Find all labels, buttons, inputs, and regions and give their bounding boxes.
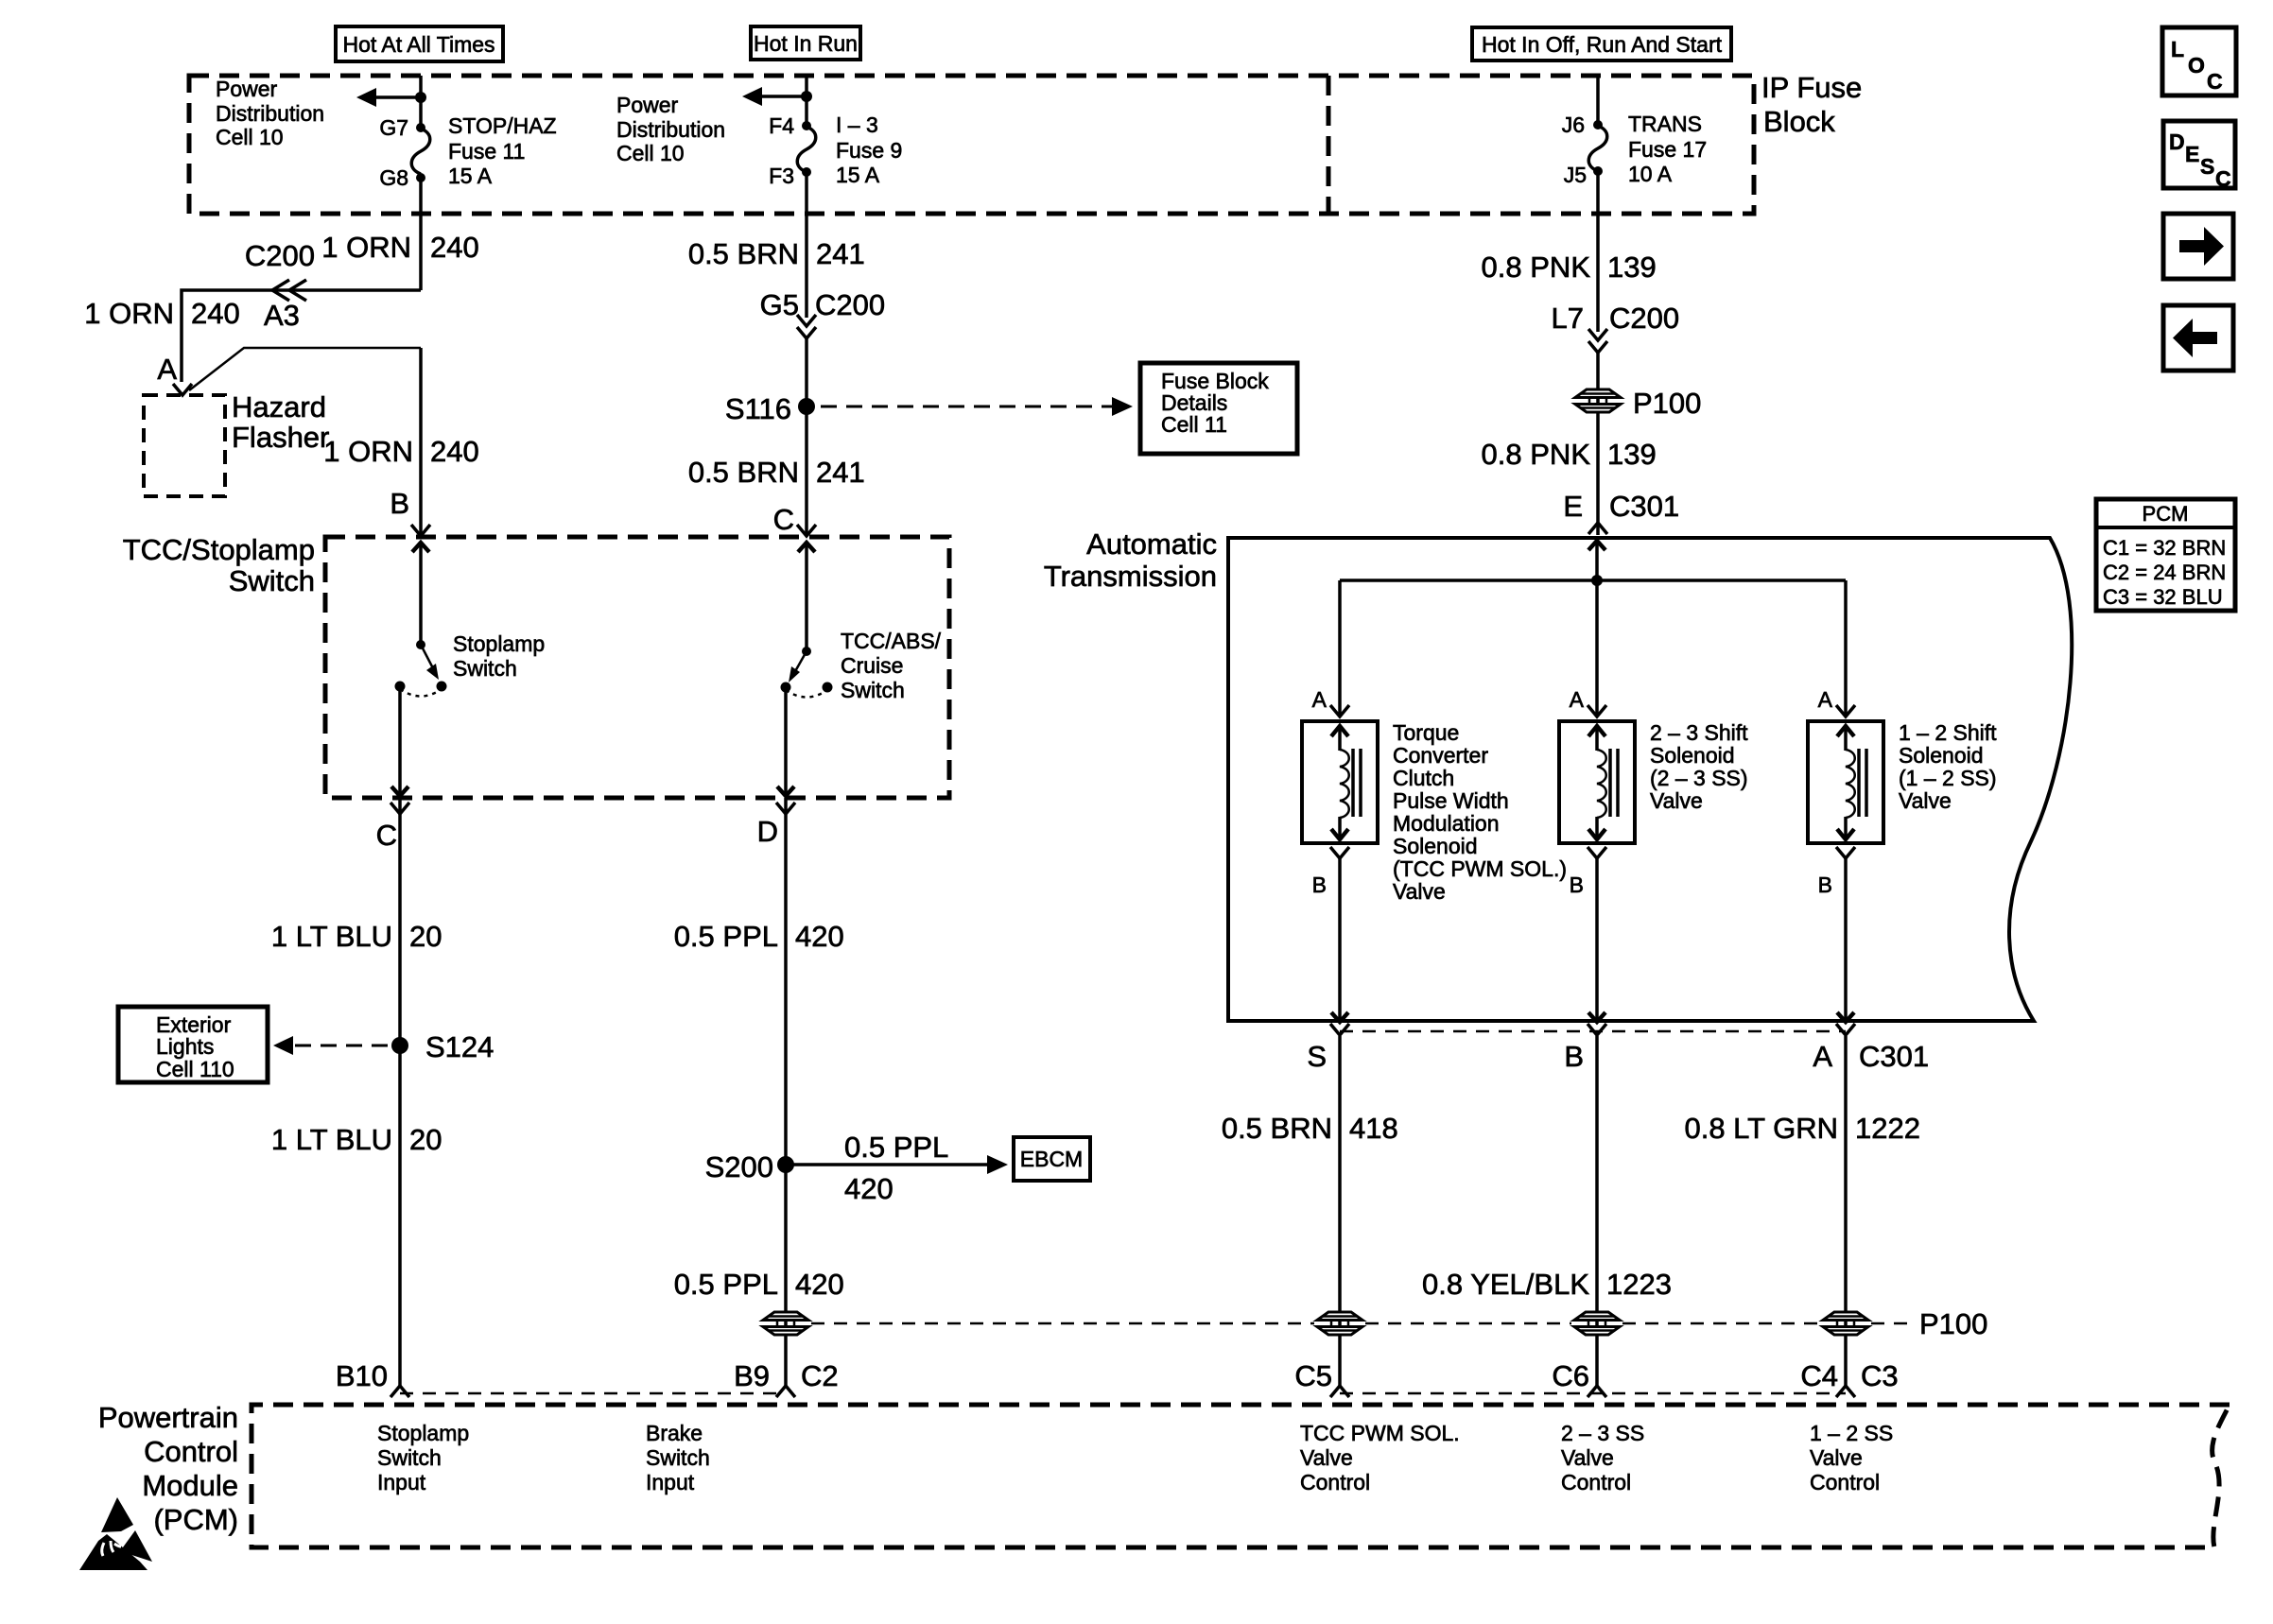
svg-text:Distribution: Distribution bbox=[216, 101, 324, 126]
wire: drop to 2-3 shift solenoid bbox=[1595, 580, 1599, 717]
label: I-3 Fuse 9 15 A bbox=[836, 112, 902, 187]
svg-text:STOP/HAZ: STOP/HAZ bbox=[448, 113, 557, 138]
svg-text:2 – 3 Shift: 2 – 3 Shift bbox=[1650, 720, 1748, 745]
svg-text:Control: Control bbox=[144, 1435, 238, 1468]
svg-text:420: 420 bbox=[844, 1172, 894, 1205]
svg-text:C301: C301 bbox=[1859, 1040, 1929, 1073]
pin F4 bbox=[769, 113, 811, 138]
terminal A of hazard flasher bbox=[157, 353, 192, 395]
svg-text:Valve: Valve bbox=[1899, 788, 1952, 813]
label: TCC/ABS/ Cruise Switch bbox=[841, 629, 942, 702]
svg-text:Stoplamp: Stoplamp bbox=[377, 1421, 469, 1445]
wire: stoplamp output arrow bbox=[391, 686, 408, 796]
svg-text:L: L bbox=[2171, 37, 2184, 61]
svg-text:TCC PWM SOL.: TCC PWM SOL. bbox=[1300, 1421, 1460, 1445]
svg-text:Switch: Switch bbox=[841, 678, 905, 702]
connector P100 pass-through col4 bbox=[1574, 1312, 1620, 1335]
svg-text:Solenoid: Solenoid bbox=[1393, 834, 1478, 858]
svg-text:Valve: Valve bbox=[1300, 1445, 1353, 1470]
fuse F9 bbox=[797, 127, 816, 172]
wire: fuse 17 output bbox=[1596, 171, 1600, 332]
wire: B to PCM C6 bbox=[1595, 1036, 1599, 1386]
svg-text:IP Fuse: IP Fuse bbox=[1761, 71, 1862, 104]
svg-text:Solenoid: Solenoid bbox=[1899, 743, 1984, 768]
arrow S200 to EBCM bbox=[786, 1131, 1008, 1205]
wire: drop to TCC PWM solenoid bbox=[1338, 580, 1342, 717]
svg-text:0.5 PPL: 0.5 PPL bbox=[844, 1131, 948, 1164]
label: 1 ORN 240 (left) bbox=[84, 297, 239, 330]
svg-text:P100: P100 bbox=[1919, 1307, 1987, 1340]
terminal S C301 bbox=[1307, 1024, 1349, 1073]
svg-text:0.5 PPL: 0.5 PPL bbox=[674, 1268, 778, 1301]
svg-text:1 ORN: 1 ORN bbox=[323, 435, 413, 468]
svg-text:B: B bbox=[1312, 872, 1327, 897]
svg-text:2 – 3 SS: 2 – 3 SS bbox=[1561, 1421, 1644, 1445]
label: Power Distribution Cell 10 (mid) bbox=[616, 93, 725, 165]
terminal C of TCC/Stoplamp switch bbox=[773, 503, 816, 536]
terminal C6 bbox=[1552, 1359, 1606, 1397]
svg-text:F3: F3 bbox=[769, 164, 794, 188]
connector tie line B10-B9 bbox=[400, 1392, 786, 1395]
wire: solenoid feed branch bbox=[1340, 579, 1846, 582]
wire: arrow to Power Distribution col2 bbox=[742, 87, 807, 106]
solenoid U3 1-2 shift box bbox=[1808, 721, 1883, 843]
label: STOP/HAZ Fuse 11 15 A bbox=[448, 113, 557, 188]
label: 1 LT BLU 20 (lower) bbox=[271, 1123, 442, 1156]
wire: col2 to PCM B9 bbox=[784, 798, 788, 1386]
svg-text:D: D bbox=[2169, 130, 2185, 154]
svg-text:E: E bbox=[1563, 490, 1583, 523]
label: Stoplamp Switch Input bbox=[377, 1421, 469, 1494]
node: junction col2 bbox=[801, 91, 812, 102]
svg-text:Flasher: Flasher bbox=[232, 421, 329, 454]
svg-text:10 A: 10 A bbox=[1628, 162, 1673, 186]
pin F3 bbox=[769, 164, 811, 188]
svg-text:S200: S200 bbox=[705, 1150, 773, 1183]
svg-text:P100: P100 bbox=[1633, 387, 1701, 420]
terminal B 2-3 solenoid bbox=[1570, 847, 1606, 897]
wire: fuse 11 output bbox=[419, 178, 423, 290]
svg-text:1222: 1222 bbox=[1855, 1112, 1920, 1145]
wire: fuse 9 output bbox=[805, 172, 808, 318]
pin J6 bbox=[1562, 112, 1603, 137]
svg-text:Fuse 17: Fuse 17 bbox=[1628, 137, 1707, 162]
svg-text:A: A bbox=[1570, 687, 1585, 712]
svg-text:C301: C301 bbox=[1609, 490, 1679, 523]
PCM connector legend table bbox=[2096, 499, 2235, 611]
solenoid U2 2-3 shift box bbox=[1559, 721, 1635, 843]
svg-text:PCM: PCM bbox=[2143, 502, 2189, 526]
svg-text:S116: S116 bbox=[725, 392, 791, 425]
label: 1 LT BLU 20 (upper) bbox=[271, 920, 442, 953]
svg-text:L7: L7 bbox=[1552, 302, 1584, 335]
svg-text:Lights: Lights bbox=[156, 1034, 214, 1059]
label: 0.8 YEL/BLK 1223 bbox=[1422, 1268, 1672, 1301]
svg-text:TRANS: TRANS bbox=[1628, 112, 1702, 136]
label: TCC/Stoplamp Switch bbox=[123, 533, 315, 597]
solenoid U3 coil bbox=[1837, 726, 1866, 839]
label: 2-3 SS Valve Control bbox=[1561, 1421, 1644, 1494]
svg-text:Switch: Switch bbox=[646, 1445, 710, 1470]
svg-text:1223: 1223 bbox=[1606, 1268, 1672, 1301]
icon LOC bbox=[2162, 27, 2236, 95]
svg-text:1 LT BLU: 1 LT BLU bbox=[271, 1123, 392, 1156]
wire: E feed arrow inside transmission bbox=[1588, 541, 1605, 580]
stoplamp switch bbox=[395, 640, 447, 697]
svg-text:Block: Block bbox=[1763, 105, 1835, 138]
wire: arrow to Power Distribution col1 bbox=[356, 88, 421, 107]
svg-text:Cell 10: Cell 10 bbox=[616, 141, 685, 165]
svg-text:1 ORN: 1 ORN bbox=[321, 231, 411, 264]
terminal A 2-3 solenoid bbox=[1570, 687, 1606, 717]
svg-text:Stoplamp: Stoplamp bbox=[453, 631, 545, 656]
connector G5 C200 bbox=[760, 288, 885, 338]
svg-text:Hot In Off, Run And Start: Hot In Off, Run And Start bbox=[1482, 32, 1723, 57]
svg-text:Fuse 9: Fuse 9 bbox=[836, 138, 902, 163]
svg-text:Power: Power bbox=[616, 93, 679, 117]
svg-text:F4: F4 bbox=[769, 113, 794, 138]
svg-text:TCC/Stoplamp: TCC/Stoplamp bbox=[123, 533, 315, 566]
icon DESC bbox=[2163, 121, 2235, 191]
svg-text:C: C bbox=[2215, 166, 2231, 191]
wire: TCC/ABS input arrow bbox=[798, 543, 815, 651]
svg-text:B: B bbox=[1818, 872, 1832, 897]
svg-text:0.5 PPL: 0.5 PPL bbox=[674, 920, 778, 953]
svg-text:D: D bbox=[757, 815, 778, 848]
wire: 1-2 solenoid return arrow bbox=[1837, 858, 1854, 1022]
svg-text:C6: C6 bbox=[1552, 1359, 1589, 1392]
connector P100 pass-through col2 bbox=[763, 1312, 808, 1335]
splice S116 bbox=[725, 392, 815, 425]
label: Brake Switch Input bbox=[646, 1421, 710, 1494]
TCC/ABS/Cruise switch bbox=[781, 647, 833, 698]
svg-text:1 – 2 Shift: 1 – 2 Shift bbox=[1899, 720, 1997, 745]
label: 0.5 PPL 420 (lower) bbox=[674, 1268, 844, 1301]
svg-text:Solenoid: Solenoid bbox=[1650, 743, 1735, 768]
svg-text:0.5 BRN: 0.5 BRN bbox=[688, 237, 799, 270]
svg-text:C3 = 32 BLU: C3 = 32 BLU bbox=[2103, 585, 2223, 609]
svg-text:240: 240 bbox=[430, 231, 479, 264]
svg-text:E: E bbox=[2185, 142, 2199, 166]
callout box Fuse Block Details Cell 11 bbox=[1140, 363, 1297, 454]
svg-text:A: A bbox=[1818, 687, 1833, 712]
splice S200 bbox=[705, 1150, 794, 1183]
svg-text:C2 = 24 BRN: C2 = 24 BRN bbox=[2103, 561, 2226, 584]
svg-text:0.8 YEL/BLK: 0.8 YEL/BLK bbox=[1422, 1268, 1589, 1301]
connector C200 marks col1 bbox=[272, 280, 306, 301]
svg-text:15 A: 15 A bbox=[448, 164, 493, 188]
svg-text:420: 420 bbox=[795, 920, 844, 953]
svg-text:C200: C200 bbox=[245, 239, 315, 272]
svg-text:C1 = 32 BRN: C1 = 32 BRN bbox=[2103, 536, 2226, 560]
label: Power Distribution Cell 10 (left) bbox=[216, 77, 324, 149]
svg-text:Control: Control bbox=[1300, 1470, 1370, 1494]
fuse F11 STOP/HAZ bbox=[411, 129, 430, 174]
svg-text:Valve: Valve bbox=[1561, 1445, 1614, 1470]
svg-text:G5: G5 bbox=[760, 288, 799, 321]
svg-text:B: B bbox=[1564, 1040, 1584, 1073]
pin G8 bbox=[379, 165, 425, 190]
svg-text:420: 420 bbox=[795, 1268, 844, 1301]
svg-text:Clutch: Clutch bbox=[1393, 766, 1454, 790]
svg-text:A: A bbox=[1312, 687, 1327, 712]
label: Powertrain Control Module (PCM) bbox=[98, 1401, 238, 1536]
svg-text:Brake: Brake bbox=[646, 1421, 703, 1445]
wire: drop to 1-2 shift solenoid bbox=[1844, 580, 1848, 717]
wire: branch down to stoplamp switch bbox=[419, 348, 423, 535]
solenoid U1 coil bbox=[1331, 726, 1361, 839]
svg-text:Torque: Torque bbox=[1393, 720, 1459, 745]
terminal B10 bbox=[336, 1359, 409, 1397]
svg-text:C: C bbox=[376, 819, 397, 852]
terminal C4 C3 bbox=[1800, 1359, 1898, 1397]
svg-text:Modulation: Modulation bbox=[1393, 811, 1500, 836]
svg-text:A: A bbox=[1813, 1040, 1832, 1073]
svg-text:I – 3: I – 3 bbox=[836, 112, 878, 137]
hazard flasher dashed box bbox=[144, 395, 225, 496]
label box "Hot At All Times" bbox=[336, 26, 503, 61]
svg-text:B10: B10 bbox=[336, 1359, 388, 1392]
terminal A 1-2 solenoid bbox=[1818, 687, 1855, 717]
svg-text:Hot In Run: Hot In Run bbox=[754, 31, 858, 56]
wire: TCC PWM solenoid return arrow bbox=[1331, 858, 1348, 1022]
svg-text:1 ORN: 1 ORN bbox=[84, 297, 174, 330]
connector tie line C301 bbox=[1340, 1030, 1846, 1033]
solenoid U2 coil bbox=[1588, 726, 1618, 839]
svg-text:Switch: Switch bbox=[453, 656, 517, 681]
svg-text:EBCM: EBCM bbox=[1020, 1147, 1083, 1171]
svg-text:Converter: Converter bbox=[1393, 743, 1488, 768]
svg-text:139: 139 bbox=[1607, 251, 1657, 284]
svg-text:(2 – 3 SS): (2 – 3 SS) bbox=[1650, 766, 1748, 790]
terminal B9 C2 bbox=[734, 1359, 839, 1397]
wire: A to PCM C4 bbox=[1844, 1036, 1848, 1386]
label: TCC PWM SOL. Valve Control bbox=[1300, 1421, 1460, 1494]
svg-text:Automatic: Automatic bbox=[1086, 527, 1217, 561]
label: 1-2 Shift Solenoid bbox=[1899, 720, 1997, 813]
wire: col1 to PCM B10 bbox=[398, 798, 402, 1386]
splice S124 bbox=[391, 1030, 494, 1063]
svg-text:Valve: Valve bbox=[1393, 879, 1446, 904]
Automatic Transmission box bbox=[1228, 538, 2072, 1021]
svg-text:Valve: Valve bbox=[1650, 788, 1703, 813]
svg-text:(1 – 2 SS): (1 – 2 SS) bbox=[1899, 766, 1997, 790]
wire: TCC/ABS output arrow bbox=[777, 687, 794, 796]
solenoid U1 TCC PWM box bbox=[1302, 721, 1378, 843]
dashed harness line P100 bbox=[811, 1322, 1914, 1325]
svg-text:G8: G8 bbox=[379, 165, 408, 190]
svg-text:Powertrain: Powertrain bbox=[98, 1401, 238, 1434]
connector P100 pass-through top bbox=[1575, 387, 1701, 420]
terminal E C301 bbox=[1563, 490, 1679, 534]
svg-text:C3: C3 bbox=[1861, 1359, 1899, 1392]
wire: S to PCM C5 bbox=[1338, 1036, 1342, 1386]
dashed arrow S116 to fuse block details bbox=[821, 397, 1133, 416]
label: 0.8 PNK 139 (upper) bbox=[1482, 251, 1657, 284]
pin J5 bbox=[1564, 163, 1603, 187]
svg-text:C: C bbox=[2207, 69, 2223, 94]
wire: 2-3 solenoid return arrow bbox=[1588, 858, 1605, 1022]
svg-text:20: 20 bbox=[409, 920, 442, 953]
svg-text:Fuse 11: Fuse 11 bbox=[448, 139, 525, 164]
svg-text:C: C bbox=[773, 503, 794, 536]
svg-text:B: B bbox=[390, 487, 409, 520]
svg-text:Valve: Valve bbox=[1810, 1445, 1863, 1470]
svg-text:240: 240 bbox=[430, 435, 479, 468]
label: 0.5 PPL 420 (upper) bbox=[674, 920, 844, 953]
connector P100 pass-through col5 bbox=[1823, 1307, 1987, 1340]
fuse F17 TRANS bbox=[1588, 126, 1607, 171]
svg-text:0.8 PNK: 0.8 PNK bbox=[1482, 438, 1591, 471]
svg-text:C5: C5 bbox=[1294, 1359, 1332, 1392]
node: junction col1 bbox=[415, 92, 426, 103]
ESD warning symbol bbox=[79, 1497, 152, 1570]
svg-text:Transmission: Transmission bbox=[1044, 560, 1217, 593]
label: 1 ORN 240 (branch) bbox=[323, 435, 478, 468]
svg-text:Control: Control bbox=[1810, 1470, 1880, 1494]
svg-text:B: B bbox=[1570, 872, 1584, 897]
wire: hazard branch diagonal bbox=[189, 348, 421, 390]
terminal D (bottom col2) bbox=[757, 803, 795, 848]
svg-text:A3: A3 bbox=[264, 299, 300, 332]
wire: fuse 17 feed bbox=[1596, 76, 1600, 125]
IP Fuse Block dashed box bbox=[189, 76, 1754, 214]
icon arrow next bbox=[2163, 214, 2233, 279]
svg-text:J6: J6 bbox=[1562, 112, 1585, 137]
svg-text:G7: G7 bbox=[379, 115, 408, 140]
svg-text:C200: C200 bbox=[815, 288, 885, 321]
svg-text:Distribution: Distribution bbox=[616, 117, 725, 142]
label: Automatic Transmission bbox=[1044, 527, 1217, 593]
svg-text:241: 241 bbox=[816, 237, 865, 270]
label: 0.8 PNK 139 (lower) bbox=[1482, 438, 1657, 471]
svg-text:Hot At All Times: Hot At All Times bbox=[342, 32, 495, 57]
IP Fuse Block label bbox=[1761, 71, 1862, 138]
svg-text:1 LT BLU: 1 LT BLU bbox=[271, 920, 392, 953]
svg-text:Cell 110: Cell 110 bbox=[156, 1057, 234, 1081]
IP Fuse Block internal separator bbox=[1327, 76, 1331, 214]
svg-text:(TCC PWM SOL.): (TCC PWM SOL.) bbox=[1393, 856, 1567, 881]
svg-text:Cell 11: Cell 11 bbox=[1161, 412, 1227, 437]
icon arrow prev bbox=[2163, 305, 2233, 371]
wire: fuse 11 feed bbox=[419, 76, 423, 128]
svg-text:Hazard: Hazard bbox=[232, 390, 326, 423]
wire: stoplamp input arrow bbox=[412, 543, 429, 645]
label: 0.5 BRN 418 bbox=[1222, 1112, 1398, 1145]
terminal A TCC PWM solenoid bbox=[1312, 687, 1349, 717]
svg-text:TCC/ABS/: TCC/ABS/ bbox=[841, 629, 942, 653]
svg-text:Module: Module bbox=[142, 1469, 238, 1502]
terminal C5 bbox=[1294, 1359, 1349, 1397]
pin G7 bbox=[379, 115, 425, 140]
svg-text:C4: C4 bbox=[1800, 1359, 1838, 1392]
svg-text:J5: J5 bbox=[1564, 163, 1587, 187]
svg-text:C2: C2 bbox=[801, 1359, 839, 1392]
terminal B 1-2 solenoid bbox=[1818, 847, 1855, 897]
wire: pnk to P100 bbox=[1596, 353, 1600, 535]
svg-text:0.8 PNK: 0.8 PNK bbox=[1482, 251, 1591, 284]
svg-text:0.5 BRN: 0.5 BRN bbox=[688, 456, 799, 489]
svg-text:0.8 LT GRN: 0.8 LT GRN bbox=[1684, 1112, 1838, 1145]
svg-text:Cell 10: Cell 10 bbox=[216, 125, 284, 149]
label: 0.5 BRN 241 (lower) bbox=[688, 456, 865, 489]
svg-text:Switch: Switch bbox=[229, 564, 315, 597]
svg-text:Control: Control bbox=[1561, 1470, 1631, 1494]
svg-text:A: A bbox=[157, 353, 177, 386]
svg-text:Pulse Width: Pulse Width bbox=[1393, 788, 1509, 813]
PCM dashed box bbox=[252, 1405, 2230, 1547]
svg-text:240: 240 bbox=[191, 297, 240, 330]
label: 2-3 Shift Solenoid bbox=[1650, 720, 1748, 813]
svg-text:S: S bbox=[2200, 154, 2214, 179]
svg-text:0.5 BRN: 0.5 BRN bbox=[1222, 1112, 1332, 1145]
svg-text:Input: Input bbox=[377, 1470, 426, 1494]
svg-text:Cruise: Cruise bbox=[841, 653, 903, 678]
wire: jog to hazard flasher bbox=[182, 290, 421, 382]
svg-text:O: O bbox=[2188, 53, 2205, 78]
label: 1-2 SS Valve Control bbox=[1810, 1421, 1893, 1494]
svg-text:20: 20 bbox=[409, 1123, 442, 1156]
wire: fuse 9 feed bbox=[805, 76, 808, 126]
svg-text:(PCM): (PCM) bbox=[153, 1503, 238, 1536]
label: TRANS Fuse 17 10 A bbox=[1628, 112, 1707, 186]
terminal B of TCC/Stoplamp switch bbox=[390, 487, 430, 536]
svg-text:S: S bbox=[1307, 1040, 1327, 1073]
label box "Hot In Off, Run And Start" bbox=[1472, 27, 1731, 60]
node: solenoid feed junction bbox=[1591, 575, 1603, 586]
callout box EBCM bbox=[1014, 1137, 1090, 1181]
terminal C (bottom col1) bbox=[376, 803, 409, 852]
label: 0.8 LT GRN 1222 bbox=[1684, 1112, 1920, 1145]
svg-text:1 – 2 SS: 1 – 2 SS bbox=[1810, 1421, 1893, 1445]
dashed arrow S124 to exterior lights bbox=[273, 1036, 388, 1055]
callout box Exterior Lights Cell 110 bbox=[118, 1007, 268, 1082]
svg-text:C200: C200 bbox=[1609, 302, 1679, 335]
label: 0.5 BRN 241 (upper) bbox=[688, 237, 865, 270]
svg-text:Switch: Switch bbox=[377, 1445, 442, 1470]
label: Torque Converter Clutch PWM Solenoid bbox=[1393, 720, 1567, 904]
terminal A C301 bbox=[1813, 1024, 1929, 1073]
connector L7 C200 bbox=[1552, 302, 1680, 353]
svg-text:Power: Power bbox=[216, 77, 278, 101]
connector tie line C5-C4 bbox=[1340, 1392, 1846, 1395]
svg-text:241: 241 bbox=[816, 456, 865, 489]
svg-text:15 A: 15 A bbox=[836, 163, 880, 187]
svg-text:Input: Input bbox=[646, 1470, 695, 1494]
connector P100 pass-through col3 bbox=[1317, 1312, 1362, 1335]
svg-text:B9: B9 bbox=[734, 1359, 770, 1392]
label: 1 ORN 240 (top) bbox=[321, 231, 478, 264]
svg-text:418: 418 bbox=[1349, 1112, 1398, 1145]
label: Hazard Flasher bbox=[232, 390, 329, 454]
terminal B TCC PWM solenoid bbox=[1312, 847, 1349, 897]
label: Stoplamp Switch bbox=[453, 631, 545, 681]
svg-text:S124: S124 bbox=[425, 1030, 494, 1063]
svg-text:139: 139 bbox=[1607, 438, 1657, 471]
wire: brn to S116 bbox=[805, 338, 808, 535]
TCC/Stoplamp Switch dashed box bbox=[325, 537, 949, 798]
label box "Hot In Run" bbox=[751, 26, 860, 60]
terminal B C301 bbox=[1564, 1024, 1606, 1073]
